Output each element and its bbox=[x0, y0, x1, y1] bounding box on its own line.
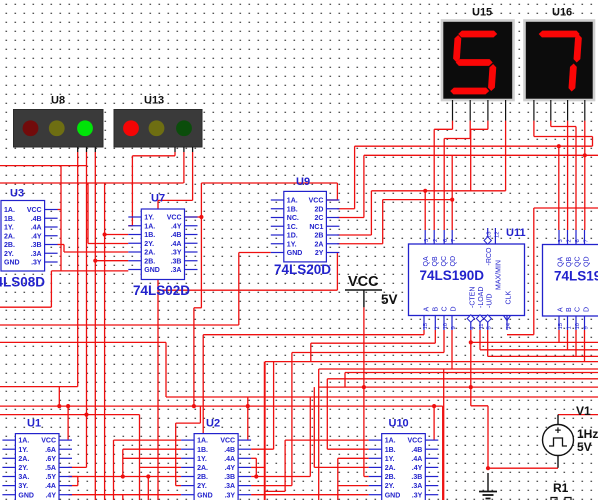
svg-text:74LS02D: 74LS02D bbox=[133, 283, 190, 298]
svg-text:5: 5 bbox=[487, 326, 493, 329]
svg-text:1D.: 1D. bbox=[287, 233, 298, 240]
svg-text:QD: QD bbox=[583, 257, 590, 268]
svg-text:2Y.: 2Y. bbox=[385, 483, 395, 490]
svg-text:1A.: 1A. bbox=[18, 438, 29, 445]
svg-text:.4Y: .4Y bbox=[45, 492, 56, 499]
svg-text:.3Y: .3Y bbox=[31, 260, 42, 267]
svg-text:.4Y: .4Y bbox=[171, 223, 182, 230]
svg-text:2Y.: 2Y. bbox=[197, 483, 207, 490]
svg-text:C: C bbox=[575, 307, 582, 312]
svg-text:.3Y: .3Y bbox=[412, 492, 423, 499]
svg-text:1A.: 1A. bbox=[287, 198, 298, 205]
svg-text:1: 1 bbox=[434, 326, 440, 329]
svg-text:.6A: .6A bbox=[45, 447, 56, 454]
svg-text:A: A bbox=[424, 307, 431, 312]
svg-text:2Y.: 2Y. bbox=[4, 251, 14, 258]
svg-text:.3B: .3B bbox=[411, 474, 422, 481]
svg-text:15: 15 bbox=[558, 323, 564, 329]
svg-text:2A.: 2A. bbox=[385, 465, 396, 472]
svg-text:CLK: CLK bbox=[506, 291, 513, 305]
svg-text:7: 7 bbox=[451, 239, 457, 242]
svg-text:2B.: 2B. bbox=[4, 242, 15, 249]
svg-text:74LS190D: 74LS190D bbox=[420, 268, 485, 283]
svg-text:9: 9 bbox=[584, 326, 590, 329]
svg-text:.4B: .4B bbox=[171, 232, 182, 239]
svg-text:5V: 5V bbox=[381, 292, 398, 307]
svg-text:9: 9 bbox=[451, 326, 457, 329]
svg-text:1B.: 1B. bbox=[287, 206, 298, 213]
svg-text:D: D bbox=[583, 307, 590, 312]
svg-text:VCC: VCC bbox=[408, 438, 423, 445]
svg-text:U16: U16 bbox=[552, 7, 572, 19]
svg-text:.4A: .4A bbox=[224, 456, 235, 463]
svg-text:1A.: 1A. bbox=[144, 223, 155, 230]
svg-text:2A.: 2A. bbox=[144, 250, 155, 257]
svg-text:1A.: 1A. bbox=[385, 438, 396, 445]
svg-text:U1: U1 bbox=[27, 418, 41, 430]
svg-text:3: 3 bbox=[558, 239, 564, 242]
svg-text:GND: GND bbox=[197, 492, 213, 499]
svg-text:6: 6 bbox=[575, 239, 581, 242]
svg-text:6: 6 bbox=[443, 239, 449, 242]
svg-text:2A: 2A bbox=[314, 241, 323, 248]
svg-text:2B: 2B bbox=[314, 233, 323, 240]
svg-text:.4A: .4A bbox=[45, 483, 56, 490]
svg-text:D: D bbox=[451, 306, 458, 311]
svg-text:GND: GND bbox=[18, 492, 34, 499]
svg-text:+: + bbox=[555, 425, 561, 437]
svg-text:U2: U2 bbox=[206, 418, 220, 430]
svg-text:GND: GND bbox=[385, 492, 401, 499]
svg-text:QB: QB bbox=[566, 257, 573, 267]
svg-text:74LS20D: 74LS20D bbox=[274, 262, 331, 277]
svg-text:1B.: 1B. bbox=[197, 447, 208, 454]
svg-text:GND: GND bbox=[287, 250, 303, 257]
svg-text:.3B: .3B bbox=[171, 258, 182, 265]
svg-text:VCC: VCC bbox=[348, 274, 379, 290]
svg-text:1Y.: 1Y. bbox=[144, 215, 154, 222]
svg-text:-RCO: -RCO bbox=[486, 247, 493, 265]
svg-text:VCC: VCC bbox=[41, 438, 56, 445]
svg-text:.3B: .3B bbox=[224, 474, 235, 481]
svg-text:2Y.: 2Y. bbox=[18, 465, 28, 472]
svg-text:1Y.: 1Y. bbox=[4, 225, 14, 232]
svg-text:2A.: 2A. bbox=[197, 465, 208, 472]
svg-text:74LS190D: 74LS190D bbox=[554, 269, 598, 284]
svg-text:U7: U7 bbox=[151, 193, 165, 205]
svg-text:A: A bbox=[558, 307, 565, 312]
svg-text:10: 10 bbox=[575, 323, 581, 329]
svg-text:.3B: .3B bbox=[31, 242, 42, 249]
svg-text:QC: QC bbox=[441, 256, 448, 267]
svg-text:.4Y: .4Y bbox=[225, 465, 236, 472]
svg-text:2A.: 2A. bbox=[4, 233, 15, 240]
svg-text:-LOAD: -LOAD bbox=[478, 287, 485, 308]
svg-text:2B.: 2B. bbox=[144, 258, 155, 265]
svg-text:1A.: 1A. bbox=[4, 207, 15, 214]
svg-text:-U/D: -U/D bbox=[487, 294, 494, 308]
svg-text:VCC: VCC bbox=[27, 207, 42, 214]
svg-text:U10: U10 bbox=[389, 418, 409, 430]
svg-text:1B.: 1B. bbox=[4, 216, 15, 223]
svg-text:2B.: 2B. bbox=[197, 474, 208, 481]
svg-text:V1: V1 bbox=[576, 404, 591, 418]
svg-text:2A.: 2A. bbox=[18, 456, 29, 463]
svg-text:3: 3 bbox=[424, 239, 430, 242]
svg-text:2B.: 2B. bbox=[385, 474, 396, 481]
svg-text:.3Y: .3Y bbox=[171, 250, 182, 257]
svg-text:2Y: 2Y bbox=[315, 250, 324, 257]
svg-text:.3A: .3A bbox=[31, 251, 42, 258]
svg-text:GND: GND bbox=[144, 267, 160, 274]
svg-text:VCC: VCC bbox=[309, 198, 324, 205]
svg-text:3A.: 3A. bbox=[18, 474, 29, 481]
svg-text:U11: U11 bbox=[506, 227, 526, 239]
svg-text:1Hz: 1Hz bbox=[577, 427, 598, 441]
svg-text:.4B: .4B bbox=[224, 447, 235, 454]
svg-text:.3Y: .3Y bbox=[225, 492, 236, 499]
svg-text:VCC: VCC bbox=[220, 438, 235, 445]
svg-text:1Y.: 1Y. bbox=[385, 456, 395, 463]
svg-text:.4Y: .4Y bbox=[412, 465, 423, 472]
svg-text:11: 11 bbox=[479, 323, 485, 329]
svg-text:GND: GND bbox=[4, 260, 20, 267]
svg-text:MAX/MIN: MAX/MIN bbox=[496, 260, 503, 290]
svg-text:VCC: VCC bbox=[167, 215, 182, 222]
svg-text:.4B: .4B bbox=[411, 447, 422, 454]
svg-text:NC1: NC1 bbox=[309, 224, 323, 231]
svg-text:QD: QD bbox=[450, 256, 457, 267]
svg-text:10: 10 bbox=[443, 323, 449, 329]
svg-text:.3A: .3A bbox=[224, 483, 235, 490]
svg-text:QB: QB bbox=[432, 256, 439, 266]
svg-text:.4Y: .4Y bbox=[31, 233, 42, 240]
svg-text:U9: U9 bbox=[296, 176, 310, 188]
svg-text:1Y.: 1Y. bbox=[197, 456, 207, 463]
svg-text:.4A: .4A bbox=[411, 456, 422, 463]
svg-text:5V: 5V bbox=[577, 440, 592, 454]
svg-text:-CTEN: -CTEN bbox=[470, 287, 477, 308]
svg-text:.4A: .4A bbox=[31, 225, 42, 232]
svg-text:.5A: .5A bbox=[45, 465, 56, 472]
svg-text:2: 2 bbox=[433, 239, 439, 242]
svg-text:2C: 2C bbox=[314, 215, 323, 222]
svg-text:.4A: .4A bbox=[171, 241, 182, 248]
svg-text:QA: QA bbox=[423, 256, 430, 266]
svg-text:R1: R1 bbox=[553, 481, 569, 495]
svg-text:QC: QC bbox=[575, 257, 582, 268]
svg-text:1A.: 1A. bbox=[197, 438, 208, 445]
svg-text:1C.: 1C. bbox=[287, 224, 298, 231]
svg-text:.6Y: .6Y bbox=[45, 456, 56, 463]
svg-text:.3A: .3A bbox=[411, 483, 422, 490]
svg-text:2Y.: 2Y. bbox=[144, 241, 154, 248]
svg-text:12: 12 bbox=[494, 232, 500, 238]
svg-text:C: C bbox=[442, 306, 449, 311]
svg-text:1B.: 1B. bbox=[385, 447, 396, 454]
svg-text:2D: 2D bbox=[314, 206, 323, 213]
svg-text:7: 7 bbox=[584, 239, 590, 242]
svg-text:U15: U15 bbox=[472, 7, 492, 19]
svg-text:B: B bbox=[433, 307, 440, 312]
svg-text:.4B: .4B bbox=[31, 216, 42, 223]
svg-text:1Y.: 1Y. bbox=[287, 241, 297, 248]
svg-text:U8: U8 bbox=[51, 95, 65, 107]
svg-text:NC.: NC. bbox=[287, 215, 299, 222]
svg-text:QA: QA bbox=[558, 257, 565, 267]
svg-text:.3A: .3A bbox=[171, 267, 182, 274]
svg-text:.5Y: .5Y bbox=[45, 474, 56, 481]
svg-text:15: 15 bbox=[423, 323, 429, 329]
svg-text:14: 14 bbox=[506, 322, 512, 329]
svg-text:74LS08D: 74LS08D bbox=[0, 275, 45, 290]
svg-text:U3: U3 bbox=[10, 188, 24, 200]
svg-text:B: B bbox=[566, 307, 573, 312]
svg-text:1B.: 1B. bbox=[144, 232, 155, 239]
svg-text:2: 2 bbox=[567, 239, 573, 242]
svg-text:U13: U13 bbox=[144, 95, 164, 107]
svg-text:3Y.: 3Y. bbox=[18, 483, 28, 490]
svg-text:1: 1 bbox=[567, 326, 573, 329]
svg-text:1Y.: 1Y. bbox=[18, 447, 28, 454]
